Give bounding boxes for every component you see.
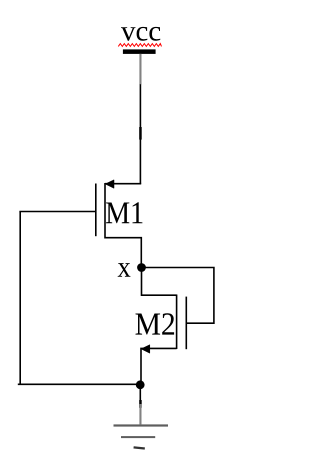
- M2 channel line: [176, 295, 178, 350]
- M1 source arrow: [105, 180, 114, 189]
- node label x: [118, 263, 131, 277]
- net label vcc: [121, 27, 160, 41]
- ground bar 1: [114, 424, 169, 426]
- M1 gate wire: [19, 211, 95, 213]
- M2 source arrow: [141, 345, 150, 354]
- wire overlap segment bottom: [139, 400, 142, 408]
- M1 source connection wire: [105, 238, 141, 268]
- M2 gate plate: [185, 297, 187, 350]
- node x junction dot: [137, 263, 146, 272]
- ground bar 3: [133, 446, 144, 449]
- bottom junction dot: [136, 380, 145, 389]
- ground bar 2: [121, 436, 155, 438]
- M1 gate plate: [95, 184, 97, 237]
- left feedback wire (gate M1 to bottom rail): [18, 212, 140, 385]
- vcc symbol pin (gray stem): [139, 54, 141, 85]
- wire overlap segment: [139, 127, 142, 140]
- transistor M1 label: [106, 202, 142, 223]
- M2 source connection wire: [141, 348, 177, 384]
- wire vcc to M1 drain: [139, 84, 141, 184]
- transistor M2 label: [136, 313, 175, 334]
- vcc power rail bar: [123, 49, 156, 54]
- M2 drain connection wire (node x down and right): [142, 268, 177, 296]
- ground symbol pin (gray stem): [139, 404, 141, 424]
- M1 drain connection wire: [105, 183, 140, 186]
- M1 channel line: [104, 183, 106, 239]
- wire node x to M2 gate (right loop): [142, 268, 214, 324]
- wire bottom node to ground: [139, 388, 141, 404]
- spellcheck squiggle under vcc: [118, 44, 161, 47]
